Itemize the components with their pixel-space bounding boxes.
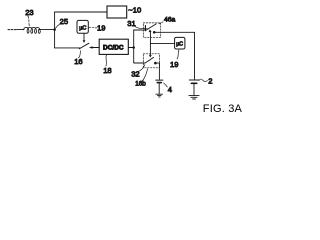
transistor Q32 lever <box>145 57 154 63</box>
control arrow from U19 to switch 16 <box>83 33 85 41</box>
wire battery 4 to ground <box>158 83 160 93</box>
leader curve 23 <box>28 16 30 26</box>
leader squiggle 32 <box>137 65 145 72</box>
dashed box 16b <box>143 54 159 68</box>
microcontroller U19r box (right µC) <box>175 37 185 49</box>
leader squiggle to label 4 <box>164 83 168 87</box>
battery 4 long plate <box>156 79 163 81</box>
wire box10 input <box>104 11 107 13</box>
battery 2 short plate <box>191 82 196 84</box>
bus junction dot <box>132 46 135 49</box>
wire DC/DC output to bus <box>128 47 133 49</box>
svg-text:~10: ~10 <box>128 5 141 14</box>
output dot of Q32 <box>154 62 157 65</box>
svg-text:25: 25 <box>60 17 68 26</box>
wire right drop to battery 2 <box>194 32 196 79</box>
wire arrow to DC/DC input <box>92 47 99 49</box>
wire dotted lead-in left <box>8 29 16 31</box>
DC/DC converter 18 box <box>99 39 128 54</box>
transistor Q31 lever <box>146 24 156 30</box>
svg-text:46a: 46a <box>164 17 176 24</box>
wire drop to battery 4 <box>158 63 160 79</box>
leader squiggle label 19 right <box>177 50 179 59</box>
leader curve 25 <box>55 24 59 28</box>
wire Q31 output to right <box>154 31 194 33</box>
wire battery 2 to ground <box>193 84 195 95</box>
svg-text:4: 4 <box>168 85 172 94</box>
switch 16 lever <box>79 43 89 49</box>
wire Q32 output right <box>155 62 159 64</box>
svg-text:DC/DC: DC/DC <box>103 44 124 51</box>
node 25 junction dot <box>53 28 56 31</box>
svg-text:23: 23 <box>25 8 33 17</box>
wire control to microcontroller U19 right <box>150 42 174 44</box>
svg-text:19: 19 <box>170 60 178 69</box>
output dot of Q31 <box>153 31 156 34</box>
svg-text:16: 16 <box>74 57 82 66</box>
svg-text:16b: 16b <box>135 80 146 87</box>
microcontroller U19 box (left µC) <box>77 20 88 33</box>
leader squiggle 16 <box>78 51 80 58</box>
arrowhead of U19 control <box>83 40 86 43</box>
leader squiggle to label 18 <box>105 55 108 66</box>
transistor Q31 control stem <box>149 32 151 57</box>
wire vertical riser at node 25 <box>54 12 56 48</box>
arrowhead up at Q31 <box>149 29 152 32</box>
box 10 (rectifier) <box>107 6 127 18</box>
wire coil to node 25 <box>39 29 55 31</box>
svg-text:FIG. 3A: FIG. 3A <box>203 103 243 115</box>
wire bus vertical <box>133 30 135 63</box>
arrowhead into switch 16 from DC/DC side <box>89 46 93 48</box>
dashed box 46a <box>143 23 160 37</box>
svg-text:µC: µC <box>79 25 86 31</box>
leader dash to 46a <box>158 22 163 25</box>
svg-text:18: 18 <box>103 66 111 75</box>
svg-text:19: 19 <box>97 23 105 32</box>
wire bus to top switch <box>134 29 145 31</box>
ground under battery 4 <box>156 94 163 97</box>
svg-text:2: 2 <box>208 77 212 86</box>
svg-text:32: 32 <box>131 69 139 78</box>
wire lead to coil <box>17 29 24 31</box>
ground under battery 2 <box>189 96 199 99</box>
transistor Q31 contact bar <box>144 26 146 31</box>
leader squiggle 16b <box>141 69 148 82</box>
svg-text:µC: µC <box>176 41 183 47</box>
wire bus to bottom switch <box>134 62 145 64</box>
leader squiggle 31 <box>135 26 147 28</box>
inductor L 23 coil <box>24 27 41 33</box>
leader dash to label 19 left <box>89 27 97 29</box>
arrowhead down at Q32 <box>149 55 152 58</box>
leader squiggle to label 2 <box>199 79 208 81</box>
battery 4 short plate <box>157 82 161 84</box>
wire top rail to box 10 <box>55 11 107 13</box>
wire lower rail to switch 16 <box>55 47 81 49</box>
battery 2 long plate <box>189 79 198 81</box>
